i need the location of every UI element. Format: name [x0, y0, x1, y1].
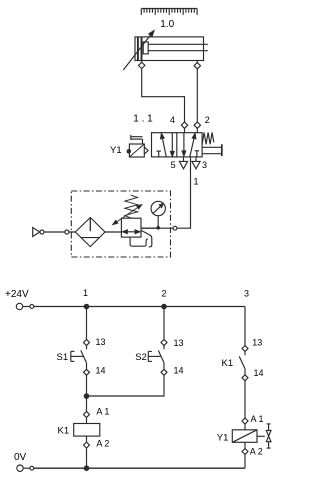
S1 bottom connector	[84, 369, 90, 375]
svg-text:Y1: Y1	[110, 145, 122, 156]
junction dot branch	[84, 393, 90, 399]
svg-text:A 1: A 1	[96, 407, 109, 417]
wire cylinder to valve port4	[142, 69, 185, 122]
top rail	[34, 306, 245, 308]
svg-text:1: 1	[83, 288, 88, 298]
valve plunger	[202, 144, 222, 156]
valve top connectors	[181, 122, 200, 133]
S2 bottom connector	[161, 369, 167, 375]
top rail terminals	[16, 303, 33, 309]
cylinder ports	[139, 61, 201, 69]
svg-text:14: 14	[96, 366, 106, 376]
bottom rail	[34, 467, 245, 469]
svg-text:3: 3	[202, 160, 207, 170]
svg-text:Y1: Y1	[217, 433, 229, 444]
ruler scale	[141, 9, 197, 15]
K1 coil	[74, 418, 100, 442]
wire S1 to K1 coil	[86, 376, 88, 412]
svg-text:14: 14	[254, 368, 264, 378]
regulator vent bracket	[142, 231, 152, 247]
svg-text:1.0: 1.0	[160, 19, 174, 30]
output line	[141, 227, 158, 229]
S1 contact	[81, 346, 87, 369]
filter	[75, 218, 105, 247]
svg-text:S2: S2	[135, 352, 147, 363]
svg-text:A 1: A 1	[251, 414, 264, 424]
svg-text:1 . 1: 1 . 1	[133, 114, 153, 125]
svg-text:3: 3	[244, 289, 249, 299]
svg-text:+24V: +24V	[5, 289, 29, 300]
regulator pilot loop	[130, 237, 148, 246]
cylinder 1.0	[135, 37, 208, 61]
svg-text:0V: 0V	[14, 452, 27, 463]
bottom rail terminals	[17, 465, 34, 471]
left square internals	[156, 133, 174, 157]
svg-text:1: 1	[193, 177, 198, 187]
svg-text:5: 5	[171, 160, 176, 170]
wire port1 to service unit	[141, 157, 191, 228]
regulator spring	[125, 195, 138, 218]
svg-text:4: 4	[170, 115, 175, 125]
junction dot rail col1	[84, 304, 90, 310]
svg-text:K1: K1	[58, 426, 70, 437]
A2 connector K1	[84, 442, 90, 448]
A1 connector K1	[84, 412, 90, 418]
S2 actuator	[148, 351, 160, 361]
exhaust port 5	[179, 157, 187, 169]
junction dot rail col2	[161, 304, 167, 310]
air supply line	[44, 231, 75, 233]
svg-text:13: 13	[252, 337, 262, 347]
column 3 wire	[244, 307, 246, 346]
svg-text:13: 13	[96, 337, 106, 347]
solenoid Y1	[127, 135, 148, 157]
valve spring	[202, 133, 214, 145]
compressed air source	[33, 228, 69, 237]
S1 actuator	[71, 351, 83, 361]
wire K1 to Y1	[244, 381, 246, 418]
svg-text:2: 2	[205, 115, 210, 125]
svg-text:A 2: A 2	[96, 439, 109, 449]
column 1 wire	[86, 307, 88, 340]
regulator adjust arrow	[113, 205, 142, 225]
wire cylinder to valve port2	[196, 69, 198, 122]
right square internals	[182, 133, 199, 157]
service unit dashed box	[71, 191, 170, 257]
A2 connector Y1	[242, 449, 248, 455]
svg-text:13: 13	[174, 338, 184, 348]
svg-text:A 2: A 2	[250, 446, 263, 456]
K1 contact	[239, 352, 245, 375]
junction dot bottom col1	[84, 465, 90, 471]
S2 top connector	[161, 340, 167, 346]
valve 1.1 body	[152, 133, 203, 157]
line filter-regulator	[105, 231, 121, 233]
pressure gauge	[151, 201, 165, 229]
K1 contact bottom connector	[242, 375, 248, 381]
wire S2 to branch	[87, 376, 165, 397]
column 2 wire	[163, 307, 165, 340]
svg-text:S1: S1	[57, 352, 69, 363]
K1 contact top connector	[242, 346, 248, 352]
svg-text:14: 14	[174, 366, 184, 376]
svg-text:K1: K1	[222, 358, 234, 369]
svg-text:2: 2	[161, 289, 166, 299]
Y1 indicator valve symbol	[257, 424, 271, 448]
regulator	[121, 218, 141, 237]
S1 top connector	[84, 340, 90, 346]
cushion arrow	[123, 31, 154, 70]
S2 contact	[158, 346, 164, 369]
A1 connector Y1	[242, 418, 248, 424]
exhaust port 3	[192, 157, 200, 169]
Y1 coil	[232, 424, 257, 448]
